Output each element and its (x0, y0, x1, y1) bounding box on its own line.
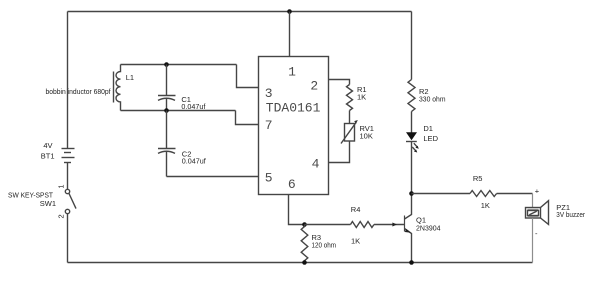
wire buzzer to bottom rail (532, 218, 534, 263)
LED D1 (406, 124, 439, 153)
svg-text:120 ohm: 120 ohm (312, 241, 337, 250)
svg-text:3V buzzer: 3V buzzer (556, 210, 585, 219)
svg-text:7: 7 (265, 118, 273, 133)
wire D1 to collector node (411, 142, 413, 194)
resistor R2 (408, 80, 446, 112)
potentiometer RV1 (341, 120, 374, 144)
wire switch to bottom rail (67, 214, 69, 263)
svg-text:D1: D1 (423, 124, 433, 133)
svg-text:R4: R4 (351, 205, 361, 214)
node pin1 top rail junction (287, 9, 292, 14)
buzzer PZ1 (526, 186, 586, 238)
svg-text:6: 6 (288, 177, 296, 192)
wire R1 to RV1 (349, 111, 351, 124)
svg-text:1: 1 (57, 184, 66, 188)
wire buzzer feed (532, 194, 534, 208)
svg-text:2N3904: 2N3904 (416, 224, 441, 233)
svg-text:3: 3 (265, 86, 273, 101)
svg-text:L1: L1 (126, 73, 134, 82)
wire tank bottom (121, 110, 236, 112)
node pin6 R3 R4 junction (302, 222, 307, 227)
wire pin 7 (236, 111, 259, 125)
transistor Q1 (405, 194, 441, 263)
svg-text:5: 5 (265, 171, 273, 186)
op-amp U1 TDA0161 (259, 57, 329, 195)
svg-text:1K: 1K (351, 237, 360, 246)
wire R4 to Q1 base (374, 223, 404, 227)
svg-text:2: 2 (310, 78, 318, 93)
svg-text:TDA0161: TDA0161 (266, 101, 321, 116)
wire pin 3 (237, 65, 259, 88)
node C2 top (164, 108, 169, 113)
resistor R4 (351, 205, 375, 246)
resistor R5 (470, 174, 497, 210)
node emitter bottom rail (409, 260, 414, 265)
node C1 top (164, 62, 169, 67)
svg-text:10K: 10K (360, 132, 373, 141)
node R3 bottom rail (302, 260, 307, 265)
capacitor C1 (158, 65, 206, 112)
svg-text:1K: 1K (357, 93, 366, 102)
capacitor C2 (158, 111, 207, 177)
wire bottom rail (68, 262, 533, 264)
wire junction to R4 (305, 224, 351, 226)
svg-text:R5: R5 (473, 174, 483, 183)
inductor L1 (46, 65, 135, 111)
wire R5 to buzzer (497, 193, 533, 195)
wire node to R5 (412, 193, 471, 195)
wire RV1 to pin 4 (329, 141, 350, 163)
svg-text:BT1: BT1 (41, 152, 55, 161)
switch SW1 (8, 184, 76, 218)
svg-text:0.047uf: 0.047uf (182, 157, 207, 166)
svg-text:0.047uf: 0.047uf (181, 102, 206, 111)
svg-text:330 ohm: 330 ohm (419, 95, 446, 104)
svg-text:bobbin inductor 680pf: bobbin inductor 680pf (46, 87, 112, 96)
wire tank top (121, 64, 237, 66)
resistor R1 (347, 85, 367, 111)
svg-text:SW1: SW1 (40, 199, 56, 208)
battery BT1 (41, 141, 75, 163)
svg-text:4V: 4V (43, 141, 52, 150)
wire battery to switch (67, 163, 69, 190)
wire top rail (68, 11, 412, 13)
svg-text:1: 1 (288, 65, 296, 80)
wire pin 2 (329, 80, 350, 85)
wire pin 1 (289, 12, 291, 57)
svg-text:2: 2 (57, 214, 66, 218)
wire R2 to D1 (411, 112, 413, 133)
svg-text:1K: 1K (481, 201, 490, 210)
svg-text:+: + (535, 186, 540, 195)
svg-text:LED: LED (423, 134, 438, 143)
wire pin 5 (167, 176, 259, 178)
node D1 collector R5 junction (409, 191, 414, 196)
resistor R3 (301, 225, 336, 263)
svg-text:4: 4 (312, 156, 320, 171)
wire R2 branch from top rail (411, 12, 413, 80)
wire left rail (67, 12, 69, 149)
wire pin 6 (289, 195, 305, 225)
